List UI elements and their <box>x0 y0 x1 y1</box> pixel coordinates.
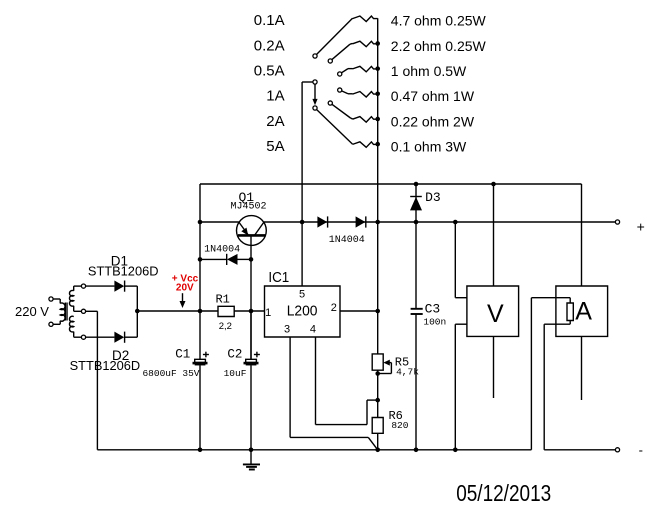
svg-text:V: V <box>487 300 504 328</box>
svg-text:0.2A: 0.2A <box>254 37 285 54</box>
svg-text:5: 5 <box>299 288 305 300</box>
svg-text:2.2 ohm 0.25W: 2.2 ohm 0.25W <box>391 38 487 54</box>
svg-text:2,2: 2,2 <box>219 321 232 332</box>
svg-text:STTB1206D: STTB1206D <box>88 264 159 279</box>
svg-text:MJ4502: MJ4502 <box>230 202 266 213</box>
svg-text:STTB1206D: STTB1206D <box>70 358 141 373</box>
svg-text:100n: 100n <box>423 316 446 327</box>
svg-text:-: - <box>639 443 643 458</box>
svg-text:4.7 ohm 0.25W: 4.7 ohm 0.25W <box>391 13 487 29</box>
svg-text:2: 2 <box>331 302 337 314</box>
svg-text:0.1A: 0.1A <box>254 12 285 29</box>
svg-text:220 V: 220 V <box>15 304 49 319</box>
svg-text:0.22 ohm 2W: 0.22 ohm 2W <box>391 113 475 129</box>
svg-text:10uF: 10uF <box>224 368 247 379</box>
svg-text:20V: 20V <box>176 283 194 294</box>
svg-text:1N4004: 1N4004 <box>204 244 240 255</box>
svg-text:05/12/2013: 05/12/2013 <box>456 480 551 506</box>
svg-text:R1: R1 <box>215 293 229 307</box>
svg-text:1A: 1A <box>266 88 284 105</box>
svg-text:820: 820 <box>391 420 408 431</box>
svg-text:5A: 5A <box>266 138 284 155</box>
svg-text:0.5A: 0.5A <box>254 63 285 80</box>
svg-text:1 ohm 0.5W: 1 ohm 0.5W <box>391 63 467 79</box>
svg-text:1N4004: 1N4004 <box>329 235 365 246</box>
svg-text:0.47 ohm 1W: 0.47 ohm 1W <box>391 88 475 104</box>
svg-text:D3: D3 <box>425 190 441 205</box>
svg-text:6800uF 35V: 6800uF 35V <box>142 368 199 379</box>
svg-text:4,7k: 4,7k <box>396 367 419 378</box>
svg-text:4: 4 <box>310 324 316 336</box>
svg-text:C3: C3 <box>425 302 441 317</box>
svg-text:+: + <box>637 218 645 234</box>
svg-text:3: 3 <box>284 324 290 336</box>
svg-text:2A: 2A <box>266 113 284 130</box>
svg-text:IC1: IC1 <box>268 270 289 286</box>
svg-text:L200: L200 <box>287 303 318 320</box>
svg-text:A: A <box>575 297 592 325</box>
svg-text:C2: C2 <box>227 348 242 362</box>
svg-text:C1: C1 <box>175 348 190 362</box>
svg-text:0.1 ohm 3W: 0.1 ohm 3W <box>391 139 467 155</box>
svg-text:1: 1 <box>265 307 271 319</box>
